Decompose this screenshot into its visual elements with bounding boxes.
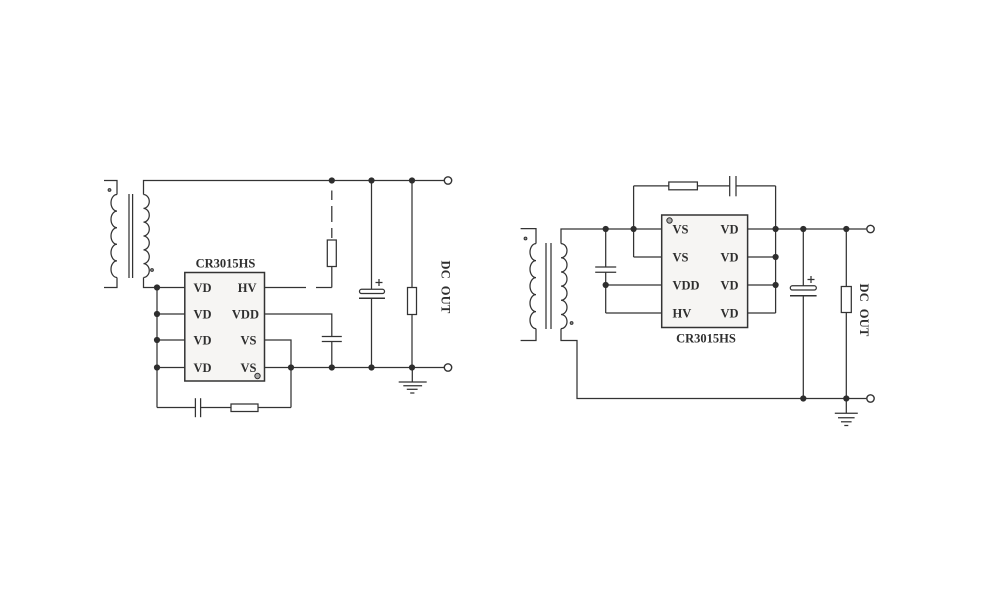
- svg-text:VD: VD: [720, 279, 738, 293]
- svg-text:VD: VD: [194, 308, 212, 322]
- svg-text:DC OUT: DC OUT: [857, 284, 871, 337]
- svg-text:VD: VD: [720, 223, 738, 237]
- svg-text:VD: VD: [720, 307, 738, 321]
- svg-text:VDD: VDD: [673, 279, 700, 293]
- svg-text:CR3015HS: CR3015HS: [676, 332, 736, 346]
- svg-text:HV: HV: [238, 281, 257, 295]
- svg-text:DC OUT: DC OUT: [439, 261, 453, 314]
- svg-text:VD: VD: [194, 281, 212, 295]
- svg-text:VDD: VDD: [232, 308, 259, 322]
- svg-text:CR3015HS: CR3015HS: [196, 257, 256, 271]
- svg-text:VS: VS: [673, 251, 689, 265]
- svg-text:VD: VD: [720, 251, 738, 265]
- svg-text:VS: VS: [241, 361, 257, 375]
- svg-text:VD: VD: [194, 334, 212, 348]
- svg-text:VS: VS: [241, 334, 257, 348]
- svg-text:HV: HV: [673, 307, 692, 321]
- svg-text:VS: VS: [673, 223, 689, 237]
- svg-text:VD: VD: [194, 361, 212, 375]
